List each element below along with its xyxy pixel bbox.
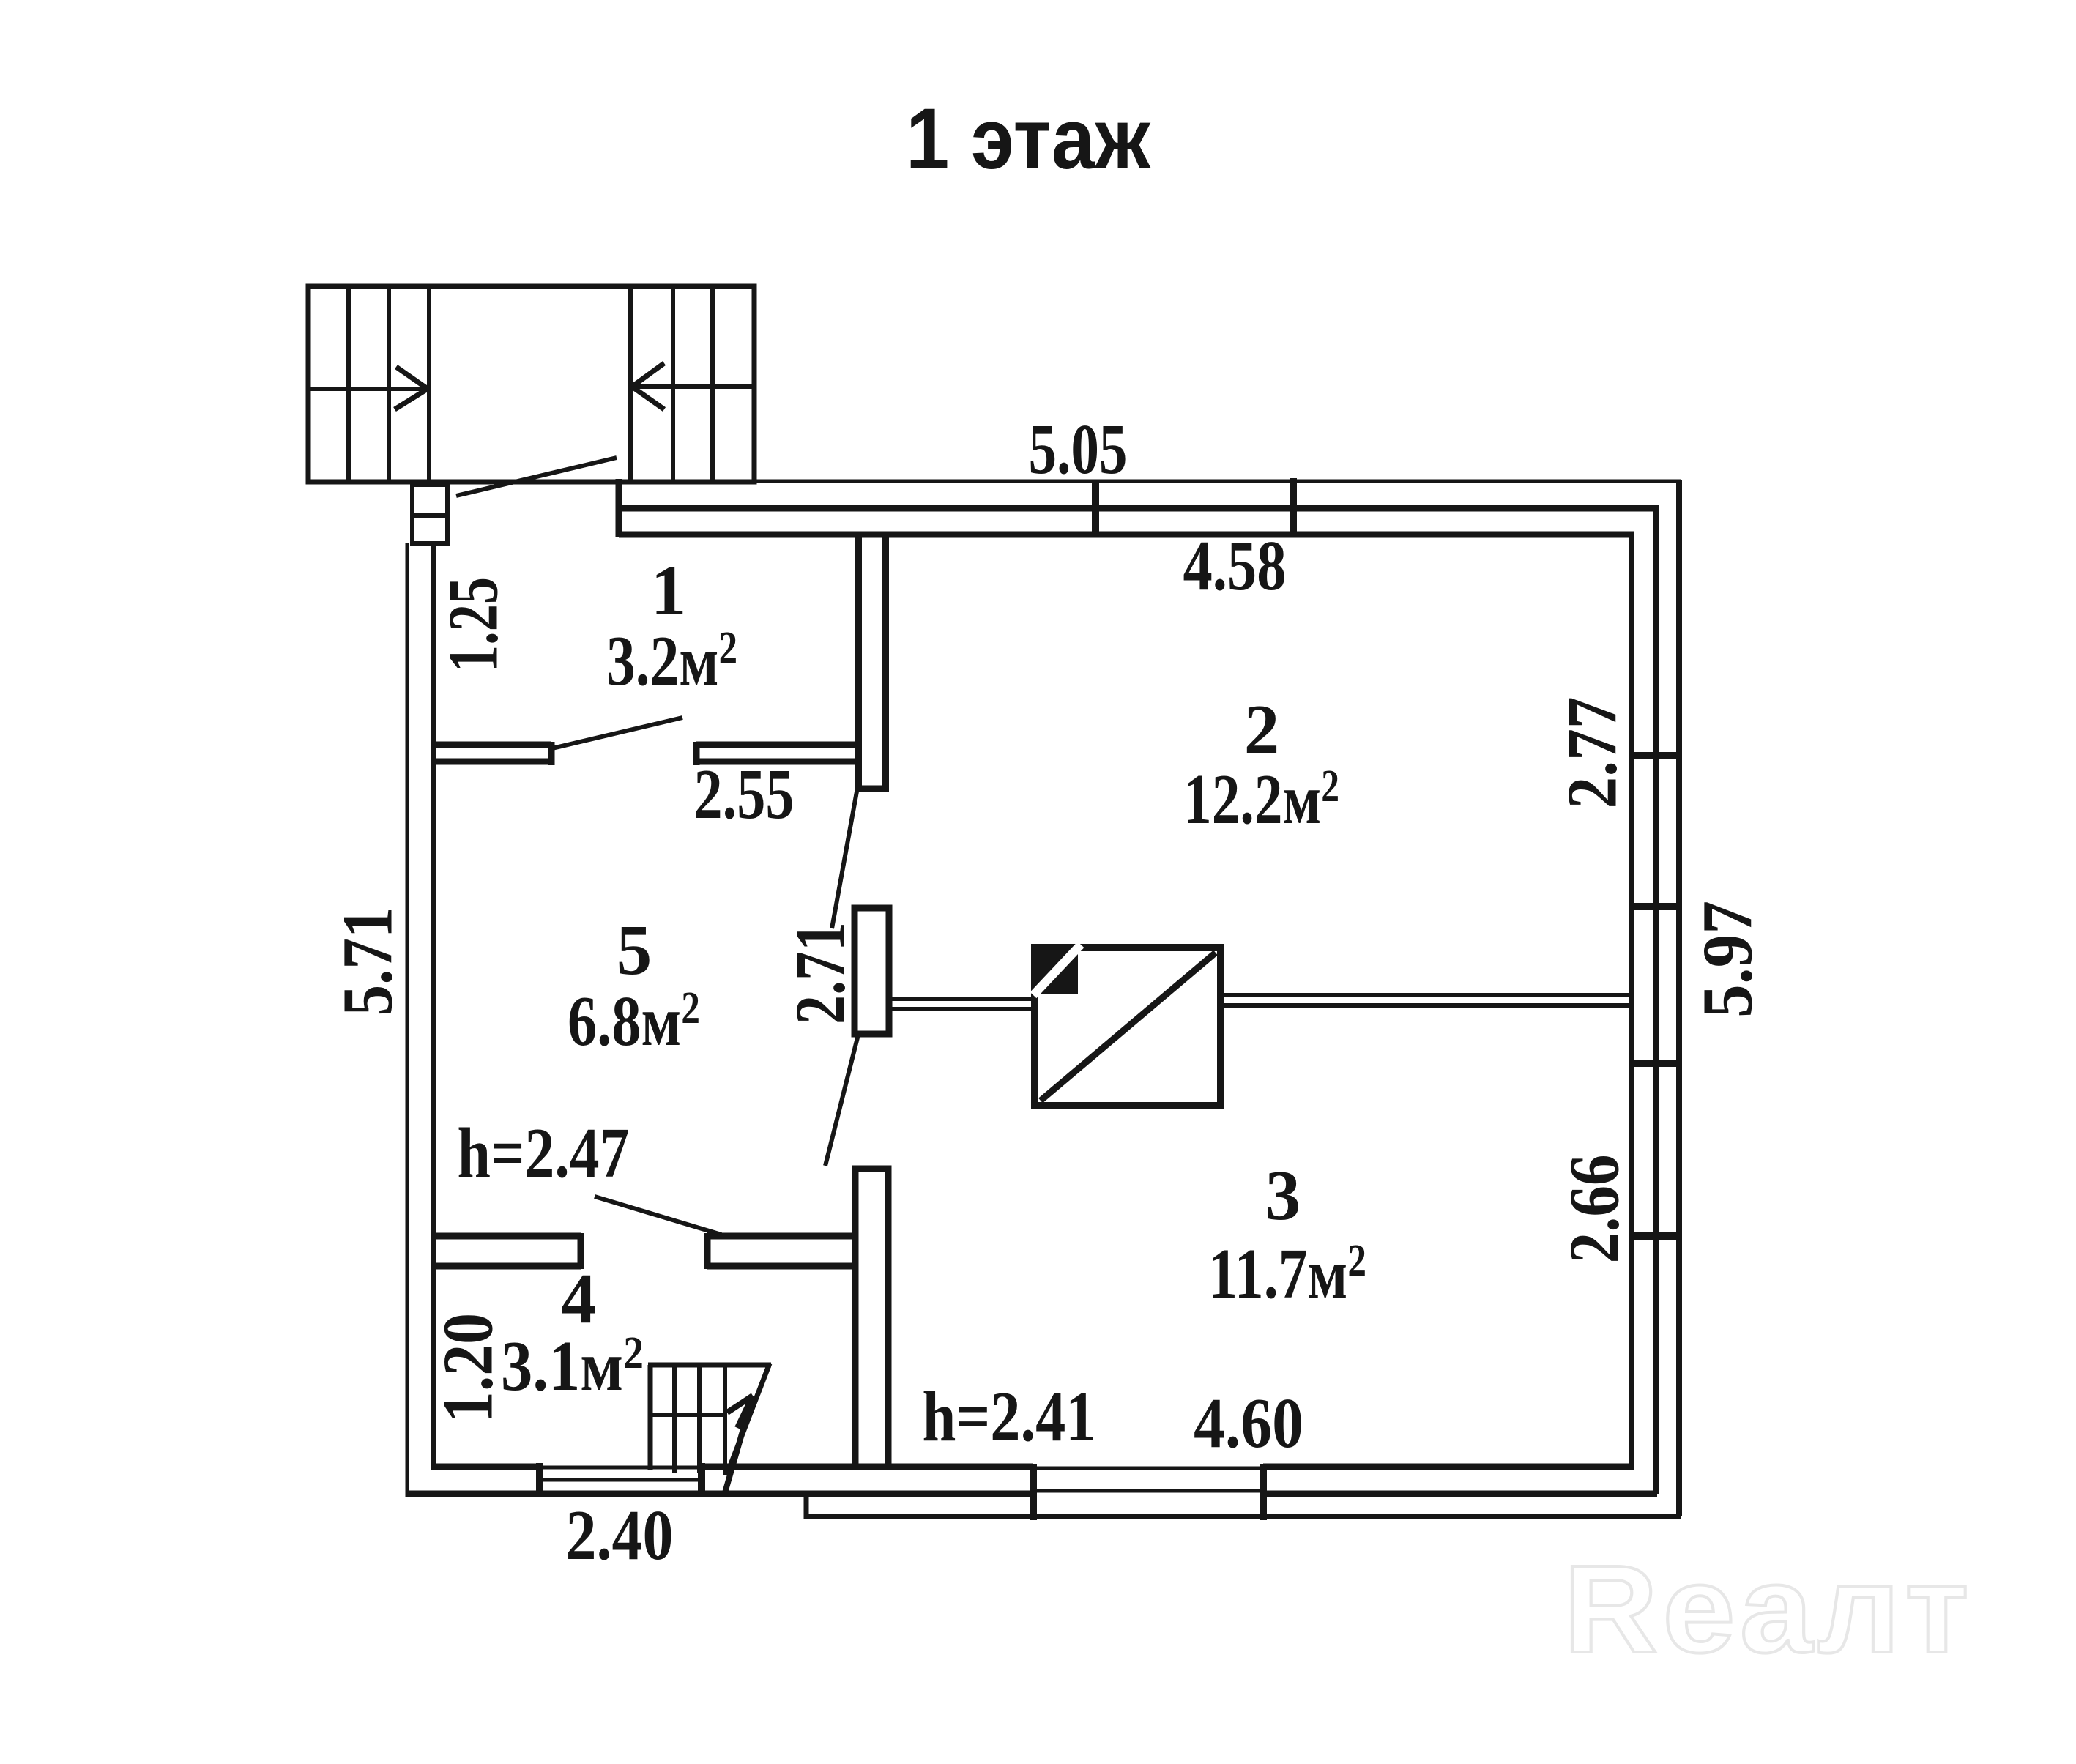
lower staircase left edge — [648, 1365, 653, 1470]
svg-text:2.66: 2.66 — [1555, 1155, 1634, 1264]
door leaf room 1 — [552, 718, 682, 748]
entrance door leaf — [456, 458, 617, 496]
stove double line right — [1221, 995, 1629, 1005]
right wall inner line — [1629, 532, 1634, 1470]
svg-text:2.71: 2.71 — [781, 922, 860, 1024]
wall stub middle — [855, 908, 889, 1034]
stove square — [1035, 948, 1221, 1106]
bottom door threshold lines — [543, 1467, 698, 1480]
stove double line left — [889, 999, 1035, 1009]
stair treads right — [630, 286, 713, 482]
partition rooms 1/5 top line — [431, 742, 861, 748]
svg-text:4: 4 — [561, 1259, 597, 1338]
bottom window lines — [1037, 1468, 1260, 1491]
top wall middle line — [619, 505, 1657, 512]
right wall window tick 4 — [1629, 1232, 1682, 1240]
svg-text:3: 3 — [1265, 1156, 1301, 1235]
top wall window mullion 2 — [1290, 478, 1297, 536]
stove corner white stripe — [1033, 945, 1081, 995]
left wall outer line — [406, 543, 409, 1497]
bottom door jambs — [540, 1463, 702, 1497]
door leaf hall/room3 lower — [825, 1035, 858, 1166]
staircase (upper porch) box — [308, 286, 754, 482]
svg-text:h=2.41: h=2.41 — [923, 1377, 1096, 1456]
svg-text:3.2м2: 3.2м2 — [606, 622, 737, 700]
stair treads left — [349, 286, 429, 482]
lower staircase slant edge — [726, 1363, 770, 1475]
right wall window tick 1 — [1629, 752, 1682, 759]
svg-text:2.55: 2.55 — [694, 755, 795, 833]
svg-text:12.2м2: 12.2м2 — [1183, 760, 1339, 838]
stove diagonal — [1041, 953, 1216, 1101]
partition rooms 1/5 bottom line — [431, 759, 861, 765]
partition rooms 1/2 right line — [882, 532, 889, 789]
svg-text:2.40: 2.40 — [566, 1496, 674, 1574]
top wall inner line — [619, 532, 1634, 538]
right wall middle line — [1653, 505, 1659, 1494]
svg-text:1 этаж: 1 этаж — [906, 91, 1151, 187]
right wall window tick 2 — [1629, 903, 1682, 910]
svg-text:2.77: 2.77 — [1553, 697, 1632, 809]
bottom wall inner segments — [431, 1464, 1634, 1470]
svg-text:4.58: 4.58 — [1183, 526, 1287, 605]
bottom window jambs — [1033, 1464, 1263, 1520]
lower staircase top — [648, 1363, 771, 1368]
svg-text:6.8м2: 6.8м2 — [568, 982, 700, 1060]
svg-text:5.05: 5.05 — [1029, 410, 1128, 488]
wall stub lower — [855, 1169, 888, 1467]
top wall left cap — [616, 479, 622, 537]
partition rooms 1/2 left line — [855, 532, 862, 789]
partition rooms 5/4 bottom line — [431, 1263, 858, 1270]
svg-text:3.1м2: 3.1м2 — [501, 1327, 644, 1405]
partition rooms 1/2 bottom cap — [855, 786, 889, 792]
svg-text:Reaлт: Reaлт — [1563, 1540, 1973, 1679]
svg-text:2: 2 — [1244, 691, 1280, 769]
partition rooms 5/4 caps — [581, 1233, 707, 1269]
svg-text:1: 1 — [651, 551, 687, 630]
svg-text:1.20: 1.20 — [429, 1313, 507, 1423]
lower staircase arrow — [724, 1396, 753, 1495]
porch step divider — [412, 513, 447, 518]
stove black corner — [1038, 950, 1078, 994]
left wall inner line — [431, 543, 436, 1470]
stair arrow left — [395, 367, 428, 409]
svg-text:h=2.47: h=2.47 — [458, 1114, 630, 1192]
svg-text:1.25: 1.25 — [434, 577, 513, 672]
right wall outer line — [1676, 480, 1682, 1516]
bottom step line — [806, 1492, 1681, 1516]
bottom wall outer line — [407, 1491, 1657, 1497]
door leaf hall/room2 upper — [832, 792, 857, 928]
partition rooms 1/5 caps — [551, 742, 696, 765]
svg-text:4.60: 4.60 — [1194, 1384, 1303, 1462]
porch step — [412, 485, 447, 543]
stair arrow right — [632, 363, 664, 409]
svg-text:5.71: 5.71 — [329, 907, 407, 1016]
top wall outer line — [616, 480, 1681, 483]
svg-text:5.97: 5.97 — [1689, 901, 1767, 1018]
door leaf room 5/3 — [595, 1197, 721, 1235]
partition rooms 5/4 top line — [431, 1233, 858, 1240]
stair mid line right — [632, 384, 754, 389]
right wall window tick 3 — [1629, 1060, 1682, 1067]
stair mid line left — [308, 387, 428, 391]
svg-text:11.7м2: 11.7м2 — [1208, 1235, 1366, 1313]
svg-text:5: 5 — [617, 911, 652, 989]
top wall window mullion 1 — [1092, 480, 1099, 537]
lower staircase treads — [674, 1365, 725, 1475]
lower staircase mid line — [648, 1413, 725, 1417]
